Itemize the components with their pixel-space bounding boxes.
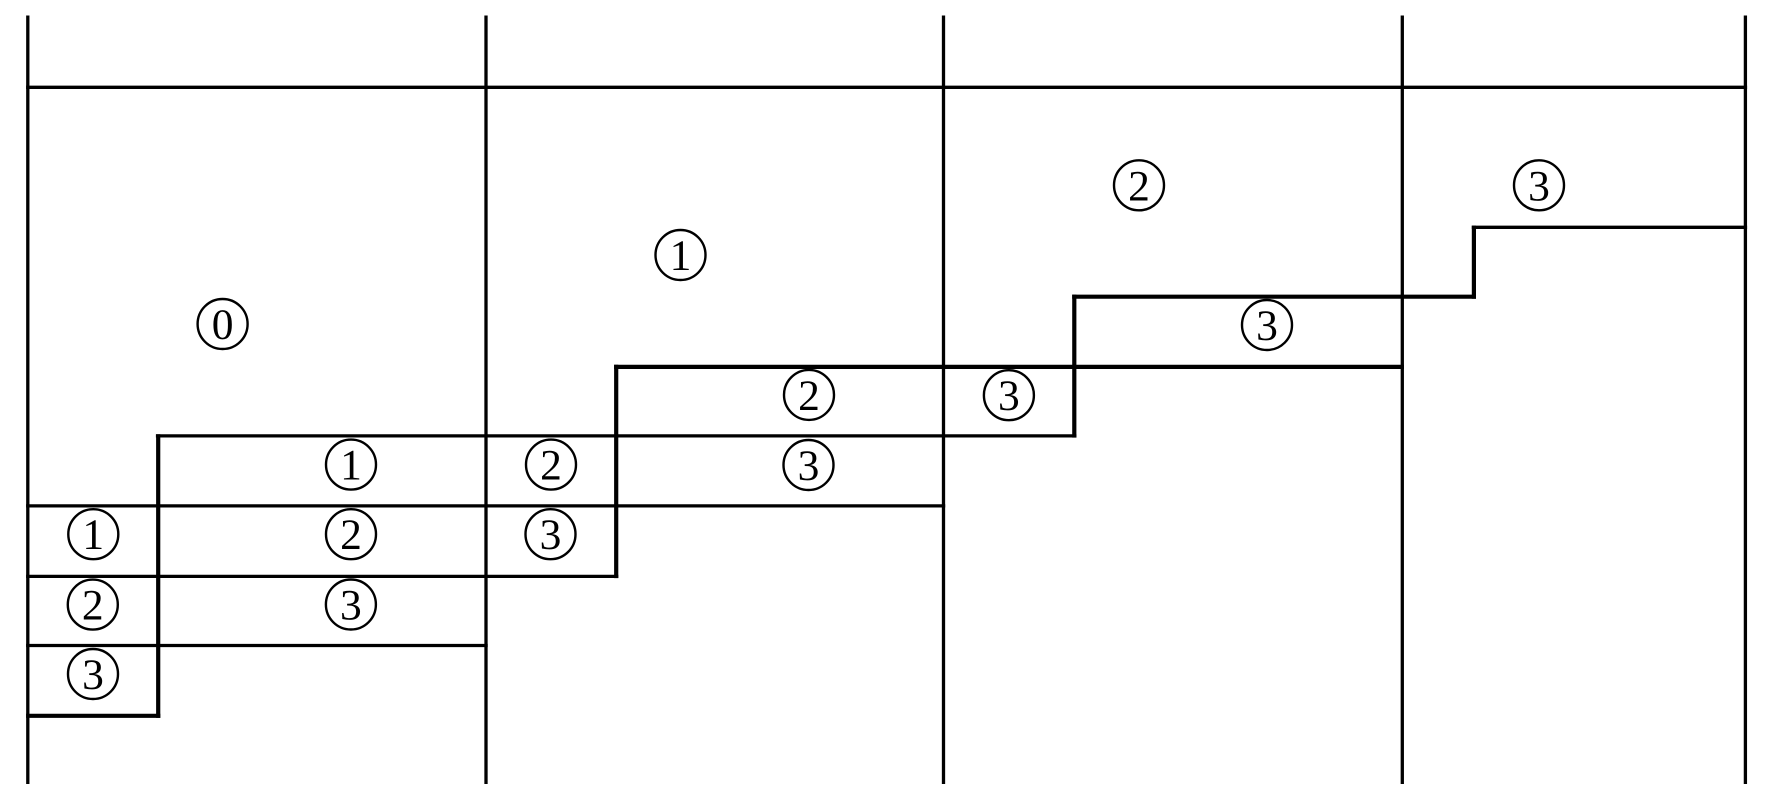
circled label 1 (band under y=506, column 0 left cell)	[68, 509, 118, 559]
circled label 3 (band under y=506, column 1 left cell)	[526, 509, 576, 559]
circled label 3 (band under y=645, column 0 left cell)	[68, 649, 118, 699]
circled label 1 (column 1 region)	[656, 230, 706, 280]
circled label 2 (band under y=367, column 1 right cell)	[784, 370, 834, 420]
circled label 2 (band under y=576, column 0 left cell)	[68, 580, 118, 630]
svg-text:0: 0	[212, 301, 234, 349]
step horizontal line y=227 (top step, column 3)	[1472, 226, 1747, 229]
row line y=576	[26, 575, 618, 578]
svg-text:3: 3	[1528, 162, 1550, 210]
circled label 3 (band under y=367, column 2 left cell)	[984, 370, 1034, 420]
svg-text:2: 2	[798, 372, 820, 420]
bold step horizontal y=367	[614, 365, 1404, 369]
svg-text:3: 3	[82, 651, 104, 699]
svg-text:1: 1	[82, 511, 104, 559]
circled label 2 (band under y=506, column 0 right cell)	[326, 509, 376, 559]
circled label 1 (band under y=436, column 0 right cell)	[326, 440, 376, 490]
circled label 3 (column 3 region)	[1514, 160, 1564, 210]
row line y=506	[26, 504, 945, 507]
svg-text:3: 3	[540, 511, 562, 559]
svg-text:1: 1	[340, 442, 362, 490]
row line y=645	[26, 644, 488, 647]
circled label 3 (band under y=576, column 0 right cell)	[326, 580, 376, 630]
grid vertical line x=28 (column 0 left)	[26, 16, 29, 785]
row line y=436	[156, 434, 1077, 437]
circled label 2 (band under y=436, column 1 left cell)	[526, 440, 576, 490]
svg-text:2: 2	[340, 511, 362, 559]
circled label 3 (band under y=297, column 2 right cell)	[1242, 300, 1292, 350]
svg-text:3: 3	[340, 582, 362, 630]
bold step vertical x=616 (column 1 riser)	[614, 365, 618, 578]
bold step vertical x=1074 (column 2 riser)	[1072, 295, 1076, 438]
circled label 0 (column 0 region)	[198, 299, 248, 349]
grid vertical line x=1745 (right border)	[1744, 16, 1747, 785]
svg-text:2: 2	[540, 442, 562, 490]
grid vertical line x=486 (column 1 left)	[484, 16, 487, 785]
grid vertical line x=1402 (column 3 left)	[1401, 16, 1404, 785]
circled label 2 (column 2 region)	[1114, 160, 1164, 210]
bold step vertical x=1474 (column 3 riser)	[1472, 226, 1476, 299]
svg-text:2: 2	[82, 582, 104, 630]
svg-text:3: 3	[1256, 302, 1278, 350]
svg-text:3: 3	[798, 442, 820, 490]
bold step vertical x=158 (column 0 riser)	[156, 434, 160, 718]
bold step horizontal y=297	[1072, 295, 1476, 299]
svg-text:2: 2	[1128, 162, 1150, 210]
svg-text:1: 1	[670, 232, 692, 280]
circled label 3 (band under y=436, column 1 right cell)	[784, 440, 834, 490]
top horizontal line y=87	[26, 86, 1747, 89]
svg-text:3: 3	[998, 372, 1020, 420]
grid vertical line x=943 (column 2 left)	[942, 16, 945, 785]
bold step horizontal y=716 (column 0 bottom step)	[26, 714, 160, 718]
